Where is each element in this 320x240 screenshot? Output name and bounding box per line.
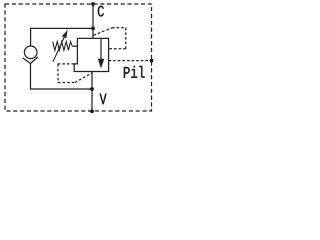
pilot dashed line from C to valve right side: [94, 28, 112, 36]
node junction dot V branch: [90, 87, 94, 91]
label V: [100, 94, 107, 105]
wire V port line: [91, 72, 93, 112]
spring (zigzag): [53, 42, 73, 51]
node junction dot C branch: [91, 27, 95, 31]
node C junction dot on border: [91, 2, 95, 6]
label Pil: [124, 66, 145, 78]
wire C port line: [92, 4, 94, 38]
wire C to check valve branch: [31, 28, 93, 45]
pilot dashed drain box (spring chamber vent): [57, 63, 74, 65]
valve body U1: [74, 38, 108, 71]
node V junction dot on border: [90, 109, 94, 113]
wire check valve to V line: [31, 64, 93, 90]
label C: [98, 6, 104, 17]
enclosure dashed border: [5, 4, 152, 111]
node Pil junction dot on border: [150, 59, 154, 63]
spring adjustment arrow: [53, 35, 65, 61]
check valve CV1 ball: [24, 46, 37, 59]
valve poppet flow arrow: [100, 39, 102, 60]
external pilot line Pil: [109, 60, 152, 62]
spring connection tick: [72, 45, 77, 47]
check valve CV1 seat: [23, 57, 38, 64]
